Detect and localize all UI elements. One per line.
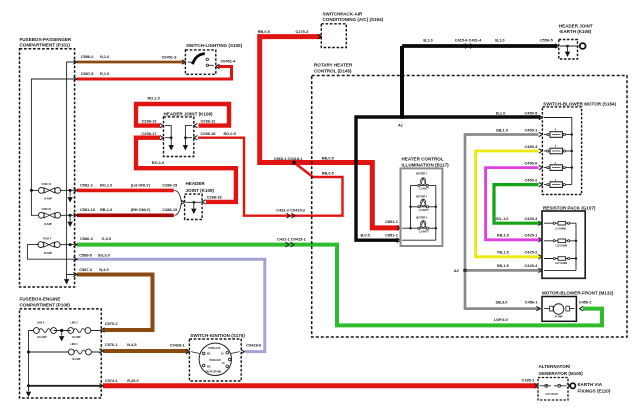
wire C586-3 G,3.0 green to motor loop <box>73 242 602 325</box>
label HEADER JOINT -EARTH (K108) <box>559 24 593 35</box>
label resistor values <box>555 228 567 265</box>
ground eyelet E110 <box>567 383 576 388</box>
svg-text:SWITCHPACK-AIR: SWITCHPACK-AIR <box>323 11 364 16</box>
svg-text:1.2 WATT: 1.2 WATT <box>419 209 430 212</box>
lamp HEATER 2 <box>418 199 429 208</box>
svg-text:ROTARY HEATER: ROTARY HEATER <box>314 63 353 68</box>
header joint K109 lower dashed box <box>185 194 203 219</box>
fuse LINK 1 60 AMP <box>68 349 91 355</box>
label LINK 1 / 60 AMP <box>71 344 81 361</box>
svg-text:C588-5: C588-5 <box>79 252 93 257</box>
label HEATER CONTROL ILLUMINATION (B117) <box>402 156 450 167</box>
heater control illumination B117 box <box>401 168 443 246</box>
svg-text:POS0-AUX: POS0-AUX <box>209 347 221 350</box>
svg-text:C576-1: C576-1 <box>105 342 119 347</box>
resistor 1.32 OHMS <box>544 239 577 243</box>
svg-text:C298-13: C298-13 <box>142 119 158 124</box>
node LINK6-LINK2 junction with arrow <box>54 329 71 342</box>
S184 contact element 3 <box>544 148 573 154</box>
svg-text:ALTERNATOR/: ALTERNATOR/ <box>539 364 572 369</box>
wire merge braces into C288-15 <box>175 190 182 215</box>
svg-text:HEATER 3: HEATER 3 <box>416 217 428 220</box>
svg-text:LINK 1: LINK 1 <box>71 344 79 346</box>
svg-text:HEADER: HEADER <box>186 181 206 186</box>
svg-text:RO,1.0: RO,1.0 <box>148 96 160 101</box>
svg-text:G/L,1.0: G/L,1.0 <box>496 216 509 221</box>
svg-text:C0428-1: C0428-1 <box>170 342 186 347</box>
svg-text:N,4.5: N,4.5 <box>127 342 137 347</box>
label HEATER 1 / 1.2 WATT <box>416 173 429 191</box>
svg-text:0.27 OHMS: 0.27 OHMS <box>555 263 567 265</box>
alternator M100 dashed box <box>538 378 568 401</box>
wire RO,1.0 from C298-17 down to lower header joint C288-18 <box>136 136 236 205</box>
connector C431-1 C0415-1 inline <box>286 242 295 247</box>
label FUSE 16 / 10 AMP <box>42 184 53 201</box>
fuse LINK 6 120 AMP <box>34 328 57 334</box>
svg-text:RO,1.0: RO,1.0 <box>152 160 164 165</box>
svg-text:B,0.5: B,0.5 <box>361 232 371 237</box>
wire C588-5 SU,3.0 lavender to ignition switch C0428-6 <box>73 257 264 354</box>
svg-text:1.32 OHMS: 1.32 OHMS <box>555 246 567 248</box>
svg-text:10 AMP: 10 AMP <box>44 198 53 201</box>
svg-text:C185-1: C185-1 <box>522 377 536 382</box>
svg-text:SB,1.5: SB,1.5 <box>497 263 510 268</box>
svg-text:RO,0.5: RO,0.5 <box>224 131 237 136</box>
svg-text:C425-1: C425-1 <box>525 233 539 238</box>
label FUSEBOX-ENGINE COMPARTMENT (P108) <box>20 296 71 307</box>
label KB,1.0 C425-1 <box>497 233 538 238</box>
svg-text:C587-5: C587-5 <box>81 71 95 76</box>
svg-text:C431-2 C0415-2: C431-2 C0415-2 <box>276 207 306 212</box>
svg-text:C0451-4: C0451-4 <box>221 58 237 63</box>
svg-text:FUSEBOX-PASSENGER: FUSEBOX-PASSENGER <box>20 37 72 42</box>
switch-ignition S176 dashed box <box>189 339 241 381</box>
svg-text:1.2 WATT: 1.2 WATT <box>419 187 430 190</box>
wire P101 bottom continuation arrow <box>64 275 69 285</box>
svg-text:CONDITIONING (A/C) (S194): CONDITIONING (A/C) (S194) <box>323 17 384 22</box>
svg-text:C298-12: C298-12 <box>201 119 217 124</box>
svg-text:SB,3.0: SB,3.0 <box>496 300 508 305</box>
label FUSEBOX-PASSENGER COMPARTMENT (P101) <box>20 37 72 48</box>
svg-text:C298-17: C298-17 <box>142 131 157 136</box>
resistor 0.27 OHMS <box>544 257 577 261</box>
fusebox P101 internal bus from C586-2 to C587-3 <box>31 62 75 275</box>
svg-text:C570-2: C570-2 <box>105 321 119 326</box>
switch-blower motor S184 dashed box <box>542 107 581 195</box>
svg-text:G,3.0: G,3.0 <box>102 236 112 241</box>
svg-text:YB,1.5: YB,1.5 <box>497 249 510 254</box>
svg-text:60 AMP: 60 AMP <box>72 336 81 339</box>
svg-text:RO,1.0: RO,1.0 <box>100 183 112 188</box>
svg-text:SWITCH-IGNITION (S176): SWITCH-IGNITION (S176) <box>190 333 245 338</box>
label G/L,1.0 C425-3 <box>496 216 539 221</box>
fuse FUSE 20 10 AMP <box>38 212 75 227</box>
svg-text:SU,3.0: SU,3.0 <box>98 252 110 257</box>
wire B black trunk vertical with A1 junction <box>356 46 542 242</box>
label C587-3 N,3.0 <box>79 267 109 272</box>
node A3 junction dot <box>463 269 467 273</box>
svg-text:1.2 WATT: 1.2 WATT <box>419 230 430 233</box>
wire C587-3 N,3.0 brown down to engine fusebox C570-2 <box>73 272 152 332</box>
svg-text:R,1.0: R,1.0 <box>100 71 109 76</box>
svg-text:C586-3: C586-3 <box>80 236 94 241</box>
wire RO,0.5 from C298-18 via C431-2 C0415-2 to junction C966-1 C0418-1 <box>194 136 343 216</box>
svg-text:COMPARTMENT (P101): COMPARTMENT (P101) <box>20 43 71 48</box>
label SB,3.0 C456-1 <box>496 300 539 305</box>
svg-text:LINK 2: LINK 2 <box>71 322 79 324</box>
wire RB,0.5 red trunk from switchpack A/C C275-3 to heater illumination C851-1 <box>260 34 401 230</box>
svg-text:C450-3: C450-3 <box>525 144 539 149</box>
wire G/L,1.0 dark green to resistor pack C425-3 <box>494 182 542 225</box>
svg-text:C450-5: C450-5 <box>525 110 539 115</box>
svg-text:-EARTH (K108): -EARTH (K108) <box>559 29 592 34</box>
svg-text:C587-3: C587-3 <box>79 267 93 272</box>
label EARTH VIA FIXINGS (E110) <box>578 382 611 393</box>
svg-text:EARTH VIA: EARTH VIA <box>578 382 603 387</box>
label SB,1.5 C425-4 <box>497 263 538 268</box>
svg-text:C288-15: C288-15 <box>162 207 178 212</box>
svg-text:MOTOR-BLOWER-FRONT (M132): MOTOR-BLOWER-FRONT (M132) <box>542 291 614 296</box>
resistor 2.0 OHMS <box>544 221 576 225</box>
label LINK 6 / 120 AMP <box>37 322 47 339</box>
header joint K108 internal earth arrow <box>560 45 578 57</box>
label C586-3 G,3.0 <box>80 236 111 241</box>
lamp HEATER 1 <box>418 178 429 187</box>
svg-text:FIXINGS (E110): FIXINGS (E110) <box>578 389 611 394</box>
svg-text:C966-1 C0418-1: C966-1 C0418-1 <box>274 156 304 161</box>
fuse FUSE 16 10 AMP <box>38 188 75 203</box>
svg-text:ILLUMINATION (B117): ILLUMINATION (B117) <box>402 162 450 167</box>
wire C586-2 N,1.0 brown to switch-lighting <box>73 60 185 64</box>
node C966-1 C0418-1 junction dot <box>292 161 296 165</box>
svg-text:70 AMP: 70 AMP <box>555 316 564 319</box>
motor-blower-front M132 box <box>542 297 576 322</box>
svg-text:C556-5: C556-5 <box>540 37 554 42</box>
header joint K109 upper dashed box <box>164 117 194 157</box>
svg-text:C456-1: C456-1 <box>525 300 539 305</box>
header joint K109 upper internal arrows <box>165 126 192 146</box>
svg-text:C581-13: C581-13 <box>80 207 96 212</box>
svg-text:C574-1: C574-1 <box>105 378 119 383</box>
svg-text:C586-2: C586-2 <box>81 54 95 59</box>
node A1 junction dot <box>400 115 404 119</box>
svg-text:RB,0.5: RB,0.5 <box>322 170 335 175</box>
switch-lighting S100 dashed box <box>185 50 215 74</box>
node fuse16 left bus dot <box>30 189 33 192</box>
wire RO,1.0 loop header joint K109 C298-13 to C298-12 <box>136 104 229 128</box>
label SB,1.0 C450-1 <box>496 127 538 132</box>
ignition switch rotary symbol <box>191 343 240 375</box>
svg-text:A3: A3 <box>454 268 460 273</box>
S184 contact element 2 <box>544 165 573 171</box>
label ignition switch positions <box>206 347 225 374</box>
svg-text:SWITCH-BLOWER MOTOR (S184): SWITCH-BLOWER MOTOR (S184) <box>543 101 616 106</box>
svg-text:13.5 VOLTS: 13.5 VOLTS <box>545 394 558 396</box>
svg-text:POS4-CRANK: POS4-CRANK <box>206 371 222 374</box>
svg-text:C450-1: C450-1 <box>525 127 539 132</box>
svg-text:120 AMP: 120 AMP <box>37 336 47 339</box>
node bus-red dot <box>27 384 30 387</box>
svg-text:C851-1: C851-1 <box>385 219 399 224</box>
svg-text:HEATER 2: HEATER 2 <box>416 196 428 199</box>
wire C582-2 RO,1.0 (LH ONLY) <box>73 188 173 192</box>
svg-text:C0428-6: C0428-6 <box>246 342 262 347</box>
svg-text:KB,1.0: KB,1.0 <box>497 233 509 238</box>
label ALTERNATOR/ GENERATOR (M100) <box>539 364 584 376</box>
svg-text:B,1.0: B,1.0 <box>496 110 505 115</box>
svg-text:CONTROL (D145): CONTROL (D145) <box>314 69 352 74</box>
svg-text:C288-18: C288-18 <box>207 195 223 200</box>
wire C574-1 R,20.0 red to alternator C185-1 <box>99 384 538 388</box>
svg-text:2.0 OHMS: 2.0 OHMS <box>555 228 566 230</box>
svg-text:C582-2: C582-2 <box>80 183 94 188</box>
svg-text:LGP,3.0: LGP,3.0 <box>494 317 508 322</box>
svg-text:C431-1 C0415-1: C431-1 C0415-1 <box>277 236 307 241</box>
S184 contact element 4 <box>544 132 573 138</box>
ground eyelet K108 <box>578 43 586 49</box>
svg-text:N,3.0: N,3.0 <box>99 267 108 272</box>
svg-text:C288-15: C288-15 <box>162 183 178 188</box>
svg-text:RB,0.5: RB,0.5 <box>322 156 335 161</box>
svg-text:10 AMP: 10 AMP <box>44 223 53 226</box>
connector C415-4 C431-4 inline <box>465 44 474 49</box>
svg-text:B,1.0: B,1.0 <box>495 37 504 42</box>
svg-text:C275-3: C275-3 <box>296 29 310 34</box>
label HEATER 2 / 1.2 WATT <box>416 196 429 212</box>
motor M132 symbol <box>544 304 575 314</box>
svg-text:HEATER CONTROL: HEATER CONTROL <box>402 156 444 161</box>
switch S100 lever symbol <box>188 54 213 67</box>
svg-text:FUSE 16: FUSE 16 <box>42 184 52 186</box>
svg-text:N,1.0: N,1.0 <box>100 54 109 59</box>
svg-text:(LH ONLY): (LH ONLY) <box>131 183 151 188</box>
label SWITCHPACK-AIR CONDITIONING (A/C) (S194) <box>323 11 384 22</box>
label FUSE 4 / 25 AMP <box>43 238 52 255</box>
svg-text:60 AMP: 60 AMP <box>72 358 81 361</box>
G107 internal rail <box>544 223 576 270</box>
wire C581-13 RB,1.0 (RH ONLY) <box>73 213 173 217</box>
svg-text:C415-4 C431-4: C415-4 C431-4 <box>455 37 482 42</box>
label C581-13 RB,1.0 (RH ONLY) C288-15 <box>80 207 178 212</box>
svg-text:A1: A1 <box>398 122 404 127</box>
svg-text:COMPARTMENT (P108): COMPARTMENT (P108) <box>20 302 71 307</box>
node LINK1 bus dot <box>27 351 30 354</box>
S184 contact element 1 <box>544 182 572 188</box>
svg-text:HEADER JOINT: HEADER JOINT <box>559 24 593 29</box>
svg-text:C851-2: C851-2 <box>385 232 399 237</box>
wire SB,1.0/1.5/3.0 grey blower feed with A3 junction <box>465 132 542 310</box>
node B117 rail dots <box>409 206 437 230</box>
label C576-1 N,4.5 <box>105 342 138 347</box>
svg-text:FUSE 4: FUSE 4 <box>43 238 52 241</box>
wire YB,1.5 yellow to resistor pack C425-2 <box>476 149 543 259</box>
svg-text:RB,1.0: RB,1.0 <box>100 207 112 212</box>
label ROTARY HEATER CONTROL (D145) <box>314 63 353 74</box>
label C587-5 R,1.0 <box>81 71 110 76</box>
svg-text:FUSEBOX-ENGINE: FUSEBOX-ENGINE <box>20 296 61 301</box>
connector C431-2 C0415-2 inline <box>287 213 296 218</box>
svg-text:GENERATOR (M100): GENERATOR (M100) <box>539 371 584 376</box>
alternator internal symbol <box>540 384 567 387</box>
svg-text:SWITCH-LIGHTING (S100): SWITCH-LIGHTING (S100) <box>186 43 243 48</box>
fusebox P108 dashed box <box>20 309 102 398</box>
B117 internal rails and bulbs <box>402 185 436 240</box>
P108 internal bus <box>29 331 102 386</box>
svg-text:25 AMP: 25 AMP <box>44 252 53 255</box>
svg-text:C456-2: C456-2 <box>579 300 593 305</box>
fuse LINK 2 60 AMP <box>68 328 91 334</box>
svg-text:C425-4: C425-4 <box>525 263 539 268</box>
svg-text:LINK 6: LINK 6 <box>37 322 45 324</box>
label C582-2 RO,1.0 (LH ONLY) C288-15 <box>80 183 178 188</box>
svg-text:HEADER JOINT (K109): HEADER JOINT (K109) <box>164 112 214 117</box>
svg-text:FUSE 20: FUSE 20 <box>42 209 52 211</box>
svg-text:(RH ONLY): (RH ONLY) <box>131 207 151 212</box>
svg-text:JOINT (K109): JOINT (K109) <box>186 188 215 193</box>
resistor pack G107 box <box>542 211 585 278</box>
label YB,1.5 C425-2 <box>497 249 538 254</box>
svg-text:C0451-3: C0451-3 <box>162 54 178 59</box>
svg-text:RESISTOR PACK (G107): RESISTOR PACK (G107) <box>543 206 596 211</box>
P108 bottom continuation arrow <box>26 386 31 397</box>
label LINK 2 / 60 AMP <box>71 322 81 339</box>
wire C587-5 R,1.0 red from fusebox to switch-lighting C0451-4 <box>73 64 231 81</box>
wire B,1.0 black earth top to header joint earth C556-5 <box>402 44 559 48</box>
svg-text:C298-18: C298-18 <box>201 131 217 136</box>
lamp HEATER 3 <box>418 221 429 230</box>
svg-text:C425-2: C425-2 <box>525 249 539 254</box>
svg-text:RB,0.5: RB,0.5 <box>258 29 271 34</box>
switchpack A/C S194 dashed box <box>321 24 346 48</box>
svg-text:C450-2: C450-2 <box>525 177 539 182</box>
header joint K109 lower internal arrow <box>186 201 201 214</box>
header joint earth K108 dashed box <box>559 40 578 60</box>
svg-text:C425-3: C425-3 <box>525 216 539 221</box>
svg-text:SB,1.0: SB,1.0 <box>496 127 508 132</box>
svg-text:POS2-IGN: POS2-IGN <box>210 360 221 362</box>
svg-text:HEATER 1: HEATER 1 <box>416 173 428 176</box>
fuse FUSE 4 25 AMP <box>27 242 75 260</box>
label HEADER JOINT (K109) lower <box>186 181 215 193</box>
label C586-2 N,1.0 <box>81 54 110 59</box>
svg-text:B,1.0: B,1.0 <box>423 37 432 42</box>
label FUSE 20 / 10 AMP <box>42 209 53 226</box>
label C588-5 SU,3.0 <box>79 252 110 257</box>
fusebox P101 dashed box <box>20 49 75 287</box>
wire C576-1 N,4.5 brown to ignition switch C0428-1 <box>99 349 189 354</box>
wire KB,1.0 magenta to resistor pack C425-1 <box>486 165 543 242</box>
svg-text:R,20.0: R,20.0 <box>127 378 138 383</box>
S184 internal rail <box>544 118 572 185</box>
svg-text:C450-6: C450-6 <box>525 160 539 165</box>
rotary heater control D145 dashed box <box>312 76 627 338</box>
label HEATER 3 / 1.2 WATT <box>416 217 429 234</box>
label S184 element numbers <box>555 129 557 182</box>
label C574-1 R,20.0 <box>105 378 139 383</box>
